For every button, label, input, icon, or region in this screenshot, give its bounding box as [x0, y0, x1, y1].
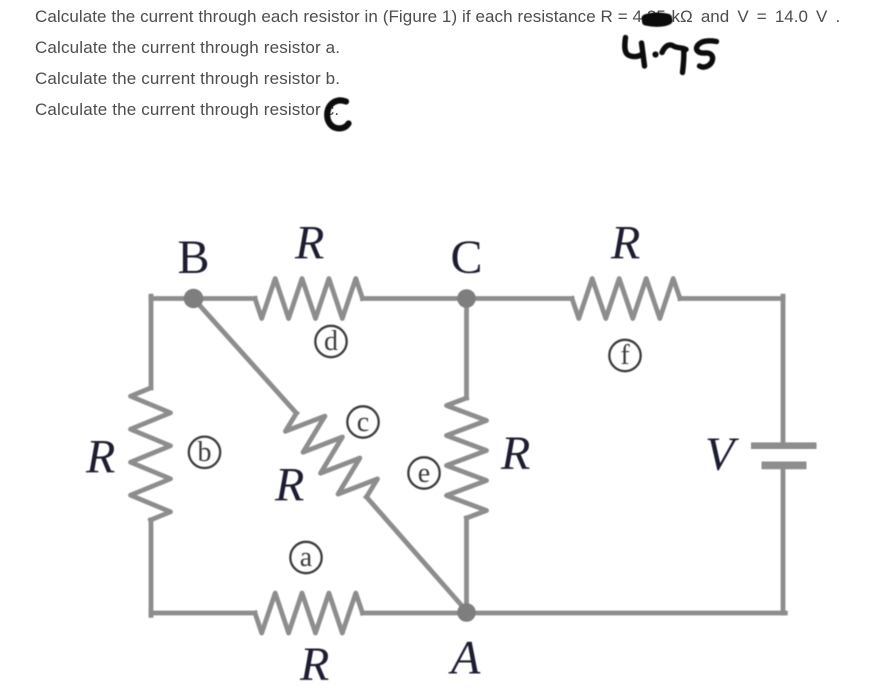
svg-text:c: c	[357, 407, 369, 438]
node A dot	[457, 603, 476, 622]
wire middle vertical lower segment	[464, 518, 469, 613]
svg-text:R: R	[610, 217, 640, 270]
circled c	[347, 406, 378, 437]
svg-text:e: e	[418, 458, 430, 489]
svg-text:A: A	[448, 632, 481, 685]
battery V short plate	[762, 461, 807, 469]
circled e	[408, 457, 439, 488]
question text line 3	[35, 69, 340, 89]
wire middle vertical upper segment	[464, 299, 469, 399]
wire bottom-left segment	[151, 611, 255, 616]
wire top-right segment	[680, 296, 783, 301]
svg-text:R: R	[274, 459, 304, 512]
svg-text:B: B	[178, 231, 210, 284]
handwritten digit 5	[696, 41, 716, 67]
svg-text:C: C	[451, 231, 483, 284]
handwritten digit 4	[625, 38, 645, 67]
svg-text:R: R	[500, 427, 530, 480]
resistor R (d) top-left zigzag	[255, 279, 363, 319]
svg-text:V: V	[705, 428, 739, 481]
node B dot	[184, 289, 204, 309]
question text line 1	[35, 7, 666, 27]
question text line 2	[35, 38, 340, 58]
battery V long plate	[751, 442, 817, 449]
wire diagonal lower segment to node A	[367, 497, 467, 611]
svg-text:d: d	[324, 326, 338, 357]
wire diagonal upper segment from node B	[194, 299, 297, 414]
svg-text:R: R	[294, 217, 324, 270]
handwritten letter C over resistor c	[327, 100, 348, 128]
wire left lower segment	[149, 520, 154, 615]
svg-text:R: R	[85, 431, 115, 484]
svg-text:f: f	[620, 340, 630, 371]
handwritten digit 7	[662, 45, 686, 73]
wire left upper segment	[149, 296, 154, 388]
node C dot	[457, 289, 476, 308]
resistor R (c) diagonal zigzag	[285, 413, 377, 497]
circled a	[290, 542, 321, 573]
question text line 4	[35, 100, 339, 120]
resistor R (b) left zigzag	[131, 388, 171, 520]
resistor R (e) middle vertical zigzag	[447, 398, 487, 518]
handwritten decimal point	[652, 51, 658, 57]
wire top-middle segment through node C	[363, 296, 573, 301]
circled d	[315, 326, 346, 357]
circled f	[609, 340, 640, 371]
svg-text:a: a	[300, 542, 313, 573]
svg-text:R: R	[299, 638, 329, 691]
resistor R (a) bottom zigzag	[255, 593, 363, 633]
wire right lower segment	[781, 469, 786, 613]
wire top-left segment	[151, 296, 255, 301]
circled b	[189, 437, 220, 468]
handwritten scribble over 4.25 value	[646, 17, 669, 23]
wire bottom-right segment	[363, 611, 786, 616]
wire right upper segment	[781, 296, 786, 443]
resistor R (f) top-right zigzag	[572, 279, 680, 319]
svg-text:b: b	[198, 437, 212, 468]
